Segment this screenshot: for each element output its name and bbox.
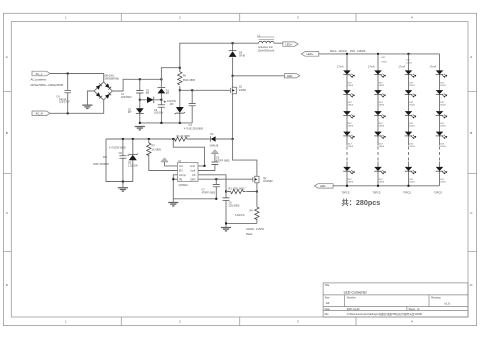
node bottom col3 bbox=[408, 185, 410, 187]
power port arrow at C6 bbox=[211, 150, 218, 154]
wire bridge right to DC rail bbox=[112, 79, 161, 91]
LED D25 c3r5 bbox=[405, 167, 417, 184]
bridge rectifier DB-2W1 bbox=[94, 75, 119, 100]
node CS R3 C5 junction bbox=[225, 191, 227, 193]
capacitor C4 bbox=[57, 74, 72, 114]
capacitor C3 bbox=[184, 90, 204, 130]
node C3 gate junction bbox=[191, 89, 193, 91]
resistor R6 bbox=[178, 68, 196, 91]
capacitor C7 bbox=[202, 179, 220, 199]
diode D1 bbox=[158, 79, 170, 100]
svg-text:04N60: 04N60 bbox=[239, 89, 247, 92]
node C7 gnd bus bbox=[215, 198, 217, 200]
ground symbol under U1 bbox=[168, 202, 178, 205]
wire AC_N to bridge bbox=[50, 100, 104, 113]
svg-text:2W06887(M): 2W06887(M) bbox=[105, 78, 120, 81]
node Vcc row R1 bbox=[172, 138, 174, 140]
svg-text:Sheet of: Sheet of bbox=[409, 308, 420, 311]
border zone letters left bbox=[6, 55, 9, 287]
diode D6 bbox=[229, 43, 246, 76]
svg-text:A: A bbox=[6, 55, 8, 59]
LED D22 c4r4 bbox=[436, 132, 448, 149]
svg-text:17mA: 17mA bbox=[430, 65, 437, 68]
resistor R3 bbox=[226, 187, 257, 193]
svg-text:560K 0805: 560K 0805 bbox=[183, 79, 196, 82]
svg-text:470PF 0805: 470PF 0805 bbox=[216, 159, 230, 162]
node AC_N/C4 junction bbox=[67, 112, 69, 114]
node bus C5 bbox=[225, 222, 227, 224]
svg-text:0402R - 0.25/W: 0402R - 0.25/W bbox=[246, 228, 264, 231]
svg-text:AC_N: AC_N bbox=[36, 112, 43, 116]
ground left branch bbox=[118, 188, 128, 191]
wire DRV to Q2 gate bbox=[198, 178, 253, 180]
svg-text:D: D bbox=[470, 283, 473, 287]
svg-text:AC powerin:: AC powerin: bbox=[31, 78, 48, 82]
ground bus under U1 bbox=[173, 198, 217, 200]
border column ticks top bbox=[121, 13, 356, 21]
LED D7 c1r1 bbox=[343, 70, 355, 87]
ground symbol bottom bbox=[221, 227, 231, 230]
node R6 top junction bbox=[179, 67, 181, 69]
wire left branch down bbox=[106, 139, 133, 187]
port LED+ left bbox=[283, 42, 298, 46]
transistor Q2 bbox=[253, 176, 273, 192]
svg-text:A4: A4 bbox=[326, 301, 330, 305]
LED D20 c2r4 bbox=[374, 132, 386, 149]
svg-text:17mA: 17mA bbox=[368, 65, 375, 68]
wire Gnd pin jog to R1 node bbox=[173, 139, 204, 166]
svg-text:LED+: LED+ bbox=[285, 42, 292, 46]
text R4 note bbox=[246, 228, 264, 236]
ground under bus bbox=[135, 126, 145, 129]
node left branch gnd bbox=[122, 181, 124, 183]
svg-text:LED+: LED+ bbox=[307, 52, 314, 56]
svg-text:LED-: LED- bbox=[320, 184, 326, 188]
svg-text:1: 1 bbox=[65, 320, 67, 324]
svg-text:CS: CS bbox=[192, 174, 196, 177]
svg-text:1: 1 bbox=[65, 16, 67, 20]
svg-text:240Vac/50HZ---240Vac/50HZ: 240Vac/50HZ---240Vac/50HZ bbox=[31, 84, 64, 87]
svg-text:D67: D67 bbox=[382, 57, 387, 59]
wire bridge left to ground bbox=[87, 91, 94, 105]
svg-text:Revision: Revision bbox=[431, 296, 441, 299]
text label above rail col3 bbox=[407, 60, 413, 65]
ground at bridge bbox=[82, 105, 92, 108]
diode D3 bbox=[140, 89, 162, 103]
wire gate row bbox=[180, 89, 231, 91]
node D1 rail junction bbox=[160, 78, 162, 80]
svg-text:SF36: SF36 bbox=[239, 55, 246, 58]
svg-text:70PCS: 70PCS bbox=[373, 191, 381, 194]
svg-text:C: C bbox=[6, 211, 9, 215]
border column ticks bottom bbox=[121, 317, 356, 326]
LED D23 c1r5 bbox=[343, 167, 355, 184]
svg-text:103/275V: 103/275V bbox=[59, 100, 70, 103]
node gnd bus 3 bbox=[179, 122, 181, 124]
svg-text:1.1E/1W: 1.1E/1W bbox=[128, 165, 138, 168]
svg-text:R1 2K 0805: R1 2K 0805 bbox=[177, 135, 191, 138]
node gnd bus 1 bbox=[139, 122, 141, 124]
svg-text:470PF 0805: 470PF 0805 bbox=[202, 191, 216, 194]
svg-text:M7: M7 bbox=[128, 111, 132, 114]
node Vcc row R7 bbox=[148, 138, 150, 140]
border zone numbers bottom bbox=[65, 320, 413, 324]
text AC power note bbox=[31, 78, 64, 88]
svg-text:223/250V: 223/250V bbox=[121, 96, 132, 99]
svg-text:B: B bbox=[6, 131, 8, 135]
svg-text:C:\Documents and Settings\ 陈建民: C:\Documents and Settings\ 陈建民\桌面\T8日光灯\… bbox=[347, 312, 422, 316]
svg-text:共：280pcs: 共：280pcs bbox=[342, 198, 381, 207]
wire AC_L to bridge bbox=[50, 74, 104, 83]
node gate row junction bbox=[179, 89, 181, 91]
wire top rail bbox=[180, 43, 254, 67]
svg-text:Size: Size bbox=[325, 296, 330, 299]
wire LED column 4 bbox=[439, 54, 441, 186]
svg-text:100/16V: 100/16V bbox=[154, 112, 164, 115]
LED D12 c2r2 bbox=[374, 90, 386, 107]
node bottom col2 bbox=[377, 185, 379, 187]
svg-text:v1.0: v1.0 bbox=[444, 302, 450, 306]
svg-text:Comp: Comp bbox=[179, 174, 186, 177]
svg-text:A: A bbox=[470, 55, 472, 59]
svg-text:ZD: ZD bbox=[170, 103, 174, 106]
svg-text:LED3: LED3 bbox=[382, 62, 388, 64]
svg-text:R4: R4 bbox=[250, 210, 254, 213]
node D3 row left bbox=[139, 99, 141, 101]
title block bbox=[323, 283, 468, 317]
LED D17 c3r3 bbox=[405, 111, 417, 128]
LED D24 c2r5 bbox=[374, 167, 386, 184]
node rail D6 junction bbox=[232, 42, 234, 44]
svg-text:17mA: 17mA bbox=[337, 65, 344, 68]
LED D16 c2r3 bbox=[374, 111, 386, 128]
svg-text:M7: M7 bbox=[166, 92, 170, 95]
svg-text:5.1R/1%: 5.1R/1% bbox=[235, 214, 245, 217]
svg-text:B: B bbox=[470, 131, 472, 135]
svg-text:1N4148: 1N4148 bbox=[210, 145, 219, 148]
node gnd bus 2 bbox=[160, 122, 162, 124]
node Vcc row C8 bbox=[122, 138, 124, 140]
svg-text:25PF 25/0805: 25PF 25/0805 bbox=[93, 163, 109, 166]
transistor Q1 bbox=[230, 76, 246, 139]
svg-text:D: D bbox=[6, 283, 9, 287]
node bottom col1 bbox=[346, 185, 348, 187]
svg-text:D4: D4 bbox=[210, 133, 214, 136]
resistor R7 bbox=[147, 139, 178, 171]
svg-text:2007-11-30: 2007-11-30 bbox=[347, 308, 360, 311]
svg-text:3: 3 bbox=[297, 16, 299, 20]
wire CS to R3 node bbox=[198, 175, 226, 192]
port LED- left bbox=[285, 74, 300, 78]
svg-text:15mH/500mAh: 15mH/500mAh bbox=[258, 50, 275, 53]
svg-text:2: 2 bbox=[179, 320, 181, 324]
LED D8 c2r1 bbox=[374, 70, 386, 87]
LED D14 c4r2 bbox=[436, 90, 448, 107]
node C2 top bbox=[160, 99, 162, 101]
svg-text:4.7U/25V 0805: 4.7U/25V 0805 bbox=[109, 147, 126, 150]
wire LED array bottom rail bbox=[333, 185, 439, 187]
border zone numbers top bbox=[65, 16, 413, 20]
wire Q1 source to Q2 drain bbox=[233, 139, 257, 176]
port LED- array bbox=[314, 184, 333, 188]
wire to LED- port bbox=[233, 75, 285, 77]
svg-text:4.7U/E 25V/0805: 4.7U/E 25V/0805 bbox=[184, 127, 204, 130]
LED D13 c3r2 bbox=[405, 90, 417, 107]
port LED+ array bbox=[301, 52, 319, 57]
node AC_L/C4 junction bbox=[67, 73, 69, 75]
svg-text:QX9910: QX9910 bbox=[179, 184, 189, 187]
node Vcc row D5 bbox=[132, 138, 134, 140]
svg-text:4: 4 bbox=[411, 320, 413, 324]
svg-text:4: 4 bbox=[411, 16, 413, 20]
capacitor C8 bbox=[109, 139, 126, 182]
svg-text:22N 0805: 22N 0805 bbox=[229, 204, 240, 207]
diode D2 bbox=[128, 100, 144, 123]
port AC_L bbox=[32, 71, 50, 76]
node D4 junction bbox=[232, 138, 234, 140]
svg-text:C8: C8 bbox=[119, 152, 123, 155]
capacitor C5 bbox=[223, 192, 240, 224]
port AC_N bbox=[32, 111, 50, 116]
wire Comp to ground bbox=[173, 175, 177, 179]
border row ticks right bbox=[468, 92, 477, 252]
LED D11 c1r2 bbox=[343, 90, 355, 107]
node rail col1 bbox=[346, 53, 348, 55]
svg-text:68mA 240Vdc 15W : 14500K: 68mA 240Vdc 15W : 14500K bbox=[330, 50, 366, 53]
wire R1 to D4 bbox=[187, 138, 210, 140]
svg-text:LED Converter: LED Converter bbox=[344, 290, 368, 294]
svg-text:2: 2 bbox=[179, 16, 181, 20]
svg-text:Number: Number bbox=[347, 296, 356, 299]
zener D5 bbox=[93, 139, 138, 182]
node DRV C7 junction bbox=[215, 178, 217, 180]
wire L1 to LED+ bbox=[254, 42, 283, 44]
svg-text:Black: Black bbox=[246, 233, 253, 236]
LED D18 c4r3 bbox=[436, 111, 448, 128]
wire rail jog to R6 bbox=[161, 68, 179, 80]
wire LED column 2 bbox=[377, 54, 379, 186]
svg-text:AO2N60: AO2N60 bbox=[263, 180, 273, 183]
title block texts bbox=[325, 284, 451, 316]
svg-text:M7: M7 bbox=[146, 92, 150, 95]
border zone letters right bbox=[470, 55, 473, 287]
svg-text:LED3: LED3 bbox=[407, 63, 413, 65]
svg-text:R3 100K 0805: R3 100K 0805 bbox=[229, 187, 246, 190]
wire Vcc row bbox=[106, 138, 175, 140]
op-amp U1 QX9910 bbox=[178, 160, 199, 187]
wire LED array top rail bbox=[319, 53, 440, 55]
LED D21 c3r4 bbox=[405, 132, 417, 149]
bottom ground bus bbox=[226, 223, 257, 227]
LED D9 c3r1 bbox=[405, 70, 417, 87]
svg-text:Isoff: Isoff bbox=[191, 170, 196, 173]
svg-text:FB: FB bbox=[179, 178, 183, 181]
wire LED column 1 bbox=[346, 54, 348, 186]
wire FB to ground bbox=[173, 179, 177, 202]
wire Isoff to C6 bbox=[198, 164, 215, 170]
zener ZD1 12V bbox=[167, 90, 185, 123]
capacitor C2 bbox=[154, 100, 166, 123]
resistor R1 bbox=[173, 135, 190, 141]
text label above rail col2 bbox=[382, 57, 388, 64]
svg-text:Date: Date bbox=[325, 308, 331, 311]
svg-text:R6: R6 bbox=[183, 75, 187, 78]
node LED- junction bbox=[232, 75, 234, 77]
svg-text:LED-: LED- bbox=[287, 74, 293, 78]
svg-text:AC_L: AC_L bbox=[36, 72, 43, 76]
svg-text:70PCS: 70PCS bbox=[434, 191, 442, 194]
ground bus left section bbox=[140, 122, 192, 124]
svg-text:C: C bbox=[470, 211, 473, 215]
LED D10 c4r1 bbox=[436, 70, 448, 87]
inductor L1 bbox=[257, 34, 274, 52]
capacitor C1 bbox=[121, 79, 143, 100]
LED D26 c4r5 bbox=[436, 167, 448, 184]
power port VCC arrow at U1 bbox=[161, 158, 178, 166]
border row ticks left bbox=[3, 92, 11, 252]
capacitor C6 bbox=[211, 154, 230, 165]
resistor R4 bbox=[235, 192, 259, 224]
node C1 top bbox=[139, 78, 141, 80]
svg-text:105: 105 bbox=[103, 156, 108, 159]
svg-text:17mA: 17mA bbox=[399, 65, 406, 68]
diode D4 bbox=[210, 133, 233, 147]
svg-text:File: File bbox=[325, 313, 330, 316]
svg-text:1K 0805: 1K 0805 bbox=[152, 148, 162, 151]
svg-text:Title: Title bbox=[325, 284, 330, 287]
LED D15 c1r3 bbox=[343, 111, 355, 128]
LED D19 c1r4 bbox=[343, 132, 355, 149]
svg-text:DRV: DRV bbox=[191, 178, 197, 181]
node rail col2 bbox=[377, 53, 379, 55]
svg-text:70PCS: 70PCS bbox=[403, 191, 411, 194]
node gnd jog bbox=[204, 165, 206, 167]
svg-text:EN: EN bbox=[179, 170, 183, 173]
node comp/fb join bbox=[172, 178, 174, 180]
svg-text:Gnd: Gnd bbox=[190, 165, 195, 168]
wire LED column 3 bbox=[408, 54, 410, 186]
svg-text:R7: R7 bbox=[152, 145, 156, 148]
svg-text:3: 3 bbox=[297, 320, 299, 324]
node R3 R4 Q2 junction bbox=[256, 191, 258, 193]
svg-text:70PCS: 70PCS bbox=[342, 191, 350, 194]
node rail col3 bbox=[408, 53, 410, 55]
